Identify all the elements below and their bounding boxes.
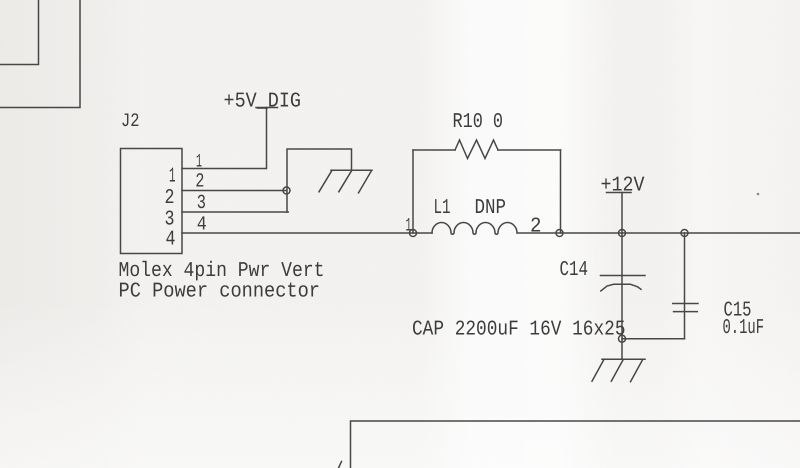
svg-text:+5V_DIG: +5V_DIG [224,91,302,114]
svg-text:2: 2 [530,216,542,239]
svg-text:PC Power connector: PC Power connector [119,281,321,304]
svg-text:4: 4 [166,229,176,252]
svg-text:0.1uF: 0.1uF [723,317,765,340]
svg-text:J2: J2 [121,110,140,132]
svg-text:+12V: +12V [601,175,645,198]
svg-text:CAP 2200uF 16V 16x25: CAP 2200uF 16V 16x25 [412,319,626,342]
svg-text:C14: C14 [560,259,589,282]
svg-text:1: 1 [406,215,412,237]
svg-text:2: 2 [165,187,175,210]
svg-text:1: 1 [196,151,202,173]
svg-text:DNP: DNP [475,197,507,220]
svg-text:R10 0: R10 0 [453,111,504,134]
svg-text:3: 3 [197,192,206,215]
svg-text:1: 1 [169,166,176,189]
svg-text:2: 2 [195,171,204,194]
svg-text:L1: L1 [434,197,451,220]
svg-text:4: 4 [197,213,207,236]
